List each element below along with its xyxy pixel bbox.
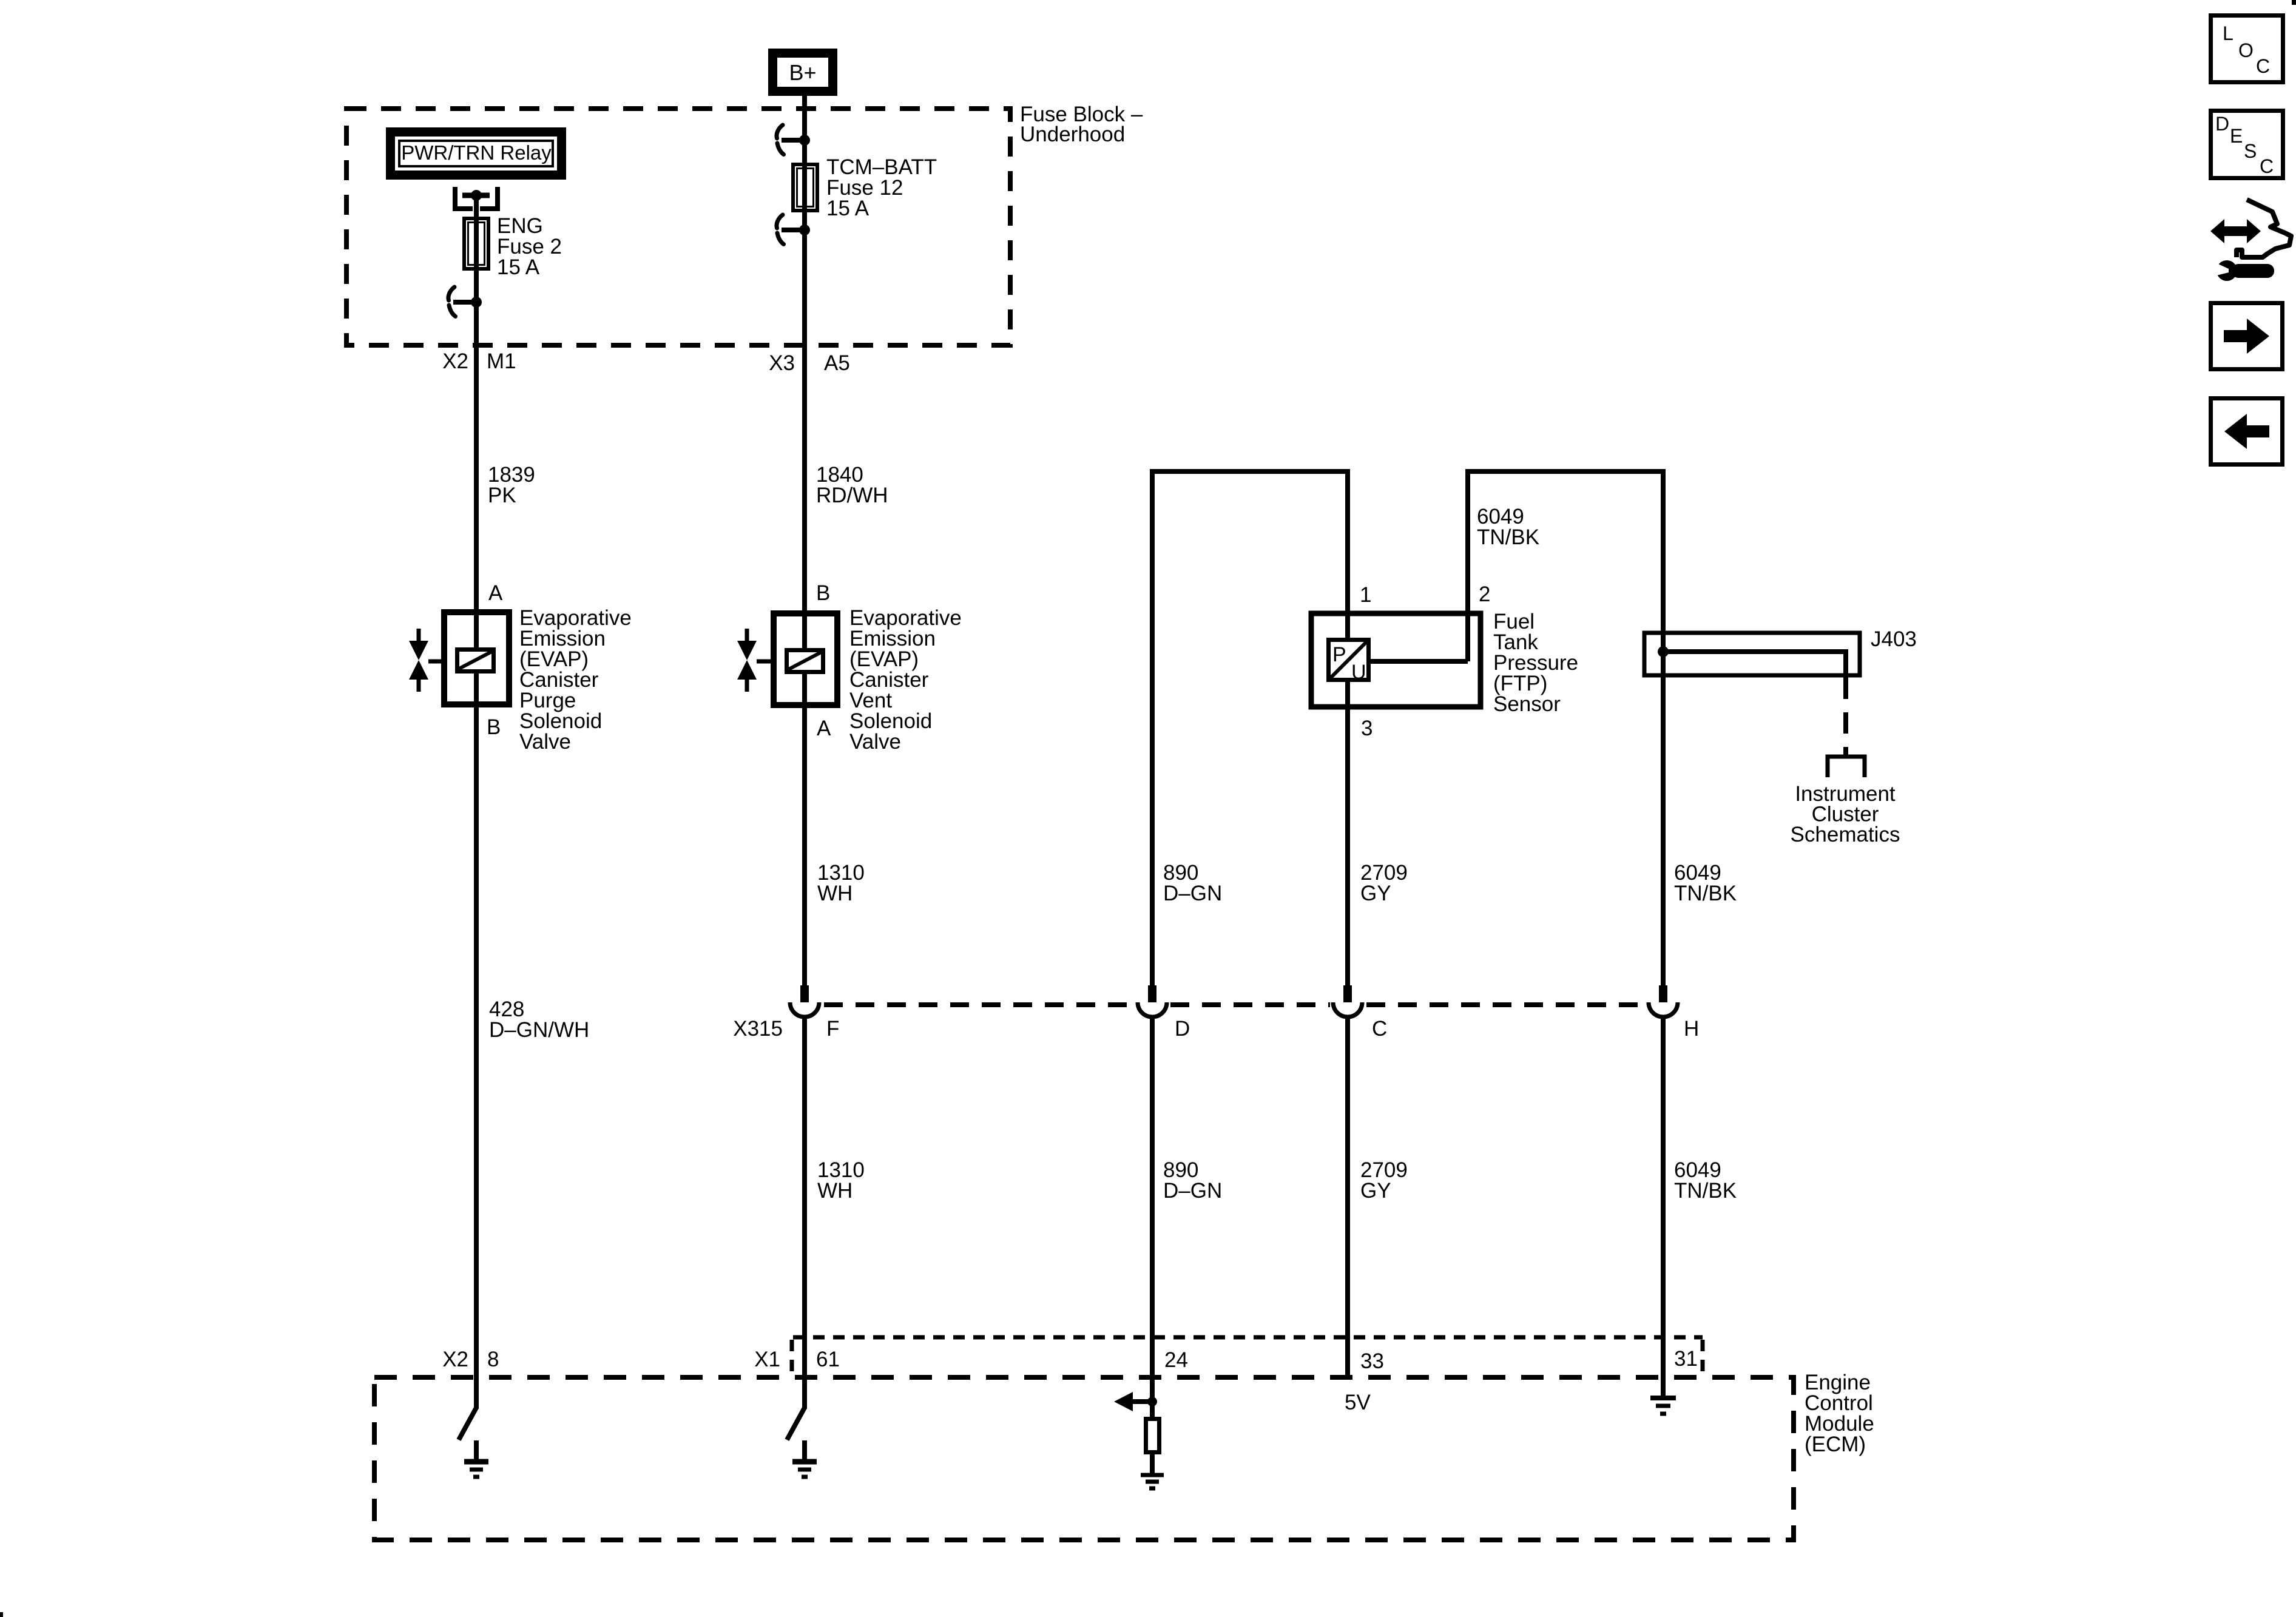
wire 6049 TN/BK: sensor pin 2 loop over to H drop — [1468, 471, 1663, 985]
svg-text:D: D — [2215, 113, 2229, 135]
wire 890 D-GN below X315 D to ECM pin 24 — [1150, 1018, 1155, 1402]
svg-text:B: B — [816, 581, 830, 605]
svg-text:15 A: 15 A — [497, 255, 540, 279]
ECM pin 61 ground — [792, 1440, 817, 1477]
clip terminal below ENG fuse — [448, 287, 475, 317]
EVAP canister purge solenoid valve box — [444, 612, 509, 704]
wire 1310 WH below X315 F to ECM pin 61 switch — [802, 1018, 807, 1409]
svg-text:TN/BK: TN/BK — [1674, 882, 1737, 905]
forward arrow nav box — [2211, 303, 2283, 370]
svg-text:X2: X2 — [442, 349, 468, 373]
X315 connector terminal F — [790, 985, 819, 1017]
svg-text:8: 8 — [487, 1348, 499, 1371]
B+ battery positive terminal — [768, 49, 837, 96]
svg-text:A: A — [817, 717, 831, 740]
svg-text:Sensor: Sensor — [1493, 692, 1561, 716]
clip terminal above TCM-BATT fuse — [777, 125, 803, 155]
fuse TCM-BATT Fuse 12 15 A — [793, 164, 817, 211]
DESC nav box — [2211, 111, 2283, 178]
svg-text:(ECM): (ECM) — [1805, 1433, 1866, 1456]
svg-text:U: U — [1351, 661, 1366, 684]
svg-text:3: 3 — [1361, 717, 1373, 740]
svg-text:5V: 5V — [1345, 1391, 1371, 1414]
ECM pin 8 internal switch — [459, 1408, 476, 1440]
svg-text:L: L — [2223, 22, 2234, 44]
svg-text:M1: M1 — [487, 349, 516, 373]
svg-text:D–GN: D–GN — [1163, 882, 1222, 905]
wire 1839 PK: fuse 2 through fuse block exit X2 M1 down to purge solenoid pin A — [474, 218, 479, 1409]
svg-text:Valve: Valve — [519, 730, 571, 754]
wire 890 D-GN: top loop to sensor pin 1 branch — [1152, 471, 1348, 985]
svg-text:GY: GY — [1360, 882, 1391, 905]
vent solenoid valve symbol — [737, 629, 771, 692]
wire: B+ to TCM-BATT fuse — [802, 96, 807, 164]
svg-text:TN/BK: TN/BK — [1674, 1179, 1737, 1203]
ECM pin 24 ground — [1141, 1475, 1164, 1488]
FTP sensor P/U transducer element — [1328, 640, 1369, 684]
svg-text:S: S — [2244, 140, 2257, 162]
svg-text:31: 31 — [1674, 1347, 1698, 1371]
svg-text:Valve: Valve — [849, 730, 901, 754]
wire 1840 RD/WH: fuse 12 through X3 A5 down to vent solenoid pin B — [802, 164, 807, 985]
tools action icon: double arrow — [2210, 219, 2261, 243]
svg-text:PWR/TRN Relay: PWR/TRN Relay — [401, 141, 552, 164]
svg-text:D: D — [1175, 1017, 1190, 1041]
svg-text:A5: A5 — [824, 351, 850, 375]
svg-text:B: B — [487, 715, 501, 739]
svg-text:TN/BK: TN/BK — [1477, 525, 1539, 549]
svg-text:WH: WH — [817, 882, 853, 905]
svg-text:33: 33 — [1360, 1349, 1384, 1373]
svg-text:X2: X2 — [442, 1348, 468, 1371]
ECM X1 connector dotted strip — [792, 1337, 1703, 1375]
engine control module (ECM) dashed box — [374, 1377, 1794, 1540]
svg-text:B+: B+ — [789, 60, 816, 85]
svg-text:C: C — [2260, 155, 2274, 177]
svg-text:GY: GY — [1360, 1179, 1391, 1203]
purge solenoid valve symbol — [409, 629, 443, 692]
page corner mark top right — [2292, 0, 2296, 5]
tools action icon: wrench — [2214, 260, 2274, 281]
svg-text:H: H — [1684, 1017, 1699, 1041]
svg-text:Underhood: Underhood — [1020, 123, 1125, 146]
svg-text:WH: WH — [817, 1179, 853, 1203]
wire 6049 TN/BK below X315 H to ECM pin 31 ground — [1661, 1018, 1666, 1397]
dashed off-page lead to instrument cluster — [1843, 678, 1848, 755]
svg-text:X315: X315 — [733, 1017, 783, 1041]
J403 splice pack box — [1644, 633, 1860, 675]
svg-text:C: C — [1372, 1017, 1387, 1041]
svg-text:P: P — [1332, 643, 1346, 666]
ECM pin 61 internal switch — [787, 1408, 805, 1440]
purge solenoid coil element — [457, 650, 494, 672]
tools action icon: pointer outline — [2237, 200, 2291, 257]
FTP sensor internal wire to pin 2 — [1369, 659, 1468, 664]
relay PWR/TRN Relay box — [386, 127, 566, 180]
svg-text:J403: J403 — [1871, 627, 1917, 651]
X315 connector terminal H — [1649, 985, 1678, 1017]
ECM pin 31 ground — [1650, 1398, 1676, 1414]
X315 connector terminal C — [1333, 985, 1362, 1017]
vent solenoid coil element — [786, 650, 823, 672]
clip terminal below TCM-BATT fuse — [777, 215, 803, 245]
svg-text:Schematics: Schematics — [1791, 823, 1900, 846]
svg-text:O: O — [2238, 39, 2254, 61]
svg-text:A: A — [488, 581, 503, 605]
wire 2709 GY below X315 C to ECM pin 33 — [1345, 1018, 1350, 1377]
ECM pin 24 signal arrow — [1114, 1392, 1157, 1411]
svg-text:PK: PK — [488, 484, 516, 507]
relay output terminal — [455, 187, 498, 209]
svg-text:D–GN: D–GN — [1163, 1179, 1222, 1203]
svg-text:F: F — [826, 1017, 839, 1041]
back arrow nav box — [2211, 399, 2283, 465]
ECM pin 8 ground — [464, 1440, 488, 1477]
svg-text:D–GN/WH: D–GN/WH — [489, 1018, 589, 1042]
svg-text:C: C — [2256, 55, 2270, 77]
J403 splice junction dot — [1658, 646, 1669, 657]
EVAP canister vent solenoid valve box — [774, 613, 837, 705]
page corner mark bottom left — [0, 1612, 3, 1617]
svg-text:RD/WH: RD/WH — [816, 484, 888, 507]
svg-text:E: E — [2230, 125, 2243, 147]
X315 connector terminal D — [1138, 985, 1167, 1017]
fuse ENG Fuse 2 15 A — [464, 218, 488, 269]
wire: relay output to ENG fuse — [474, 195, 479, 218]
J403 splice internal lead — [1663, 652, 1846, 678]
svg-text:2: 2 — [1479, 582, 1490, 606]
svg-text:X1: X1 — [754, 1348, 780, 1371]
off-page connector bracket — [1828, 757, 1865, 777]
LOC nav box — [2211, 16, 2283, 83]
ECM pin 24 pull resistor — [1146, 1402, 1160, 1474]
svg-text:24: 24 — [1164, 1348, 1188, 1372]
X315 in-line connector dashed line — [824, 1002, 1644, 1007]
svg-text:15 A: 15 A — [826, 197, 869, 220]
svg-text:1: 1 — [1360, 583, 1371, 607]
fuse block - underhood dashed box — [346, 109, 1010, 345]
fuel tank pressure sensor box — [1311, 613, 1481, 707]
svg-text:61: 61 — [816, 1348, 840, 1371]
svg-text:X3: X3 — [769, 351, 795, 375]
